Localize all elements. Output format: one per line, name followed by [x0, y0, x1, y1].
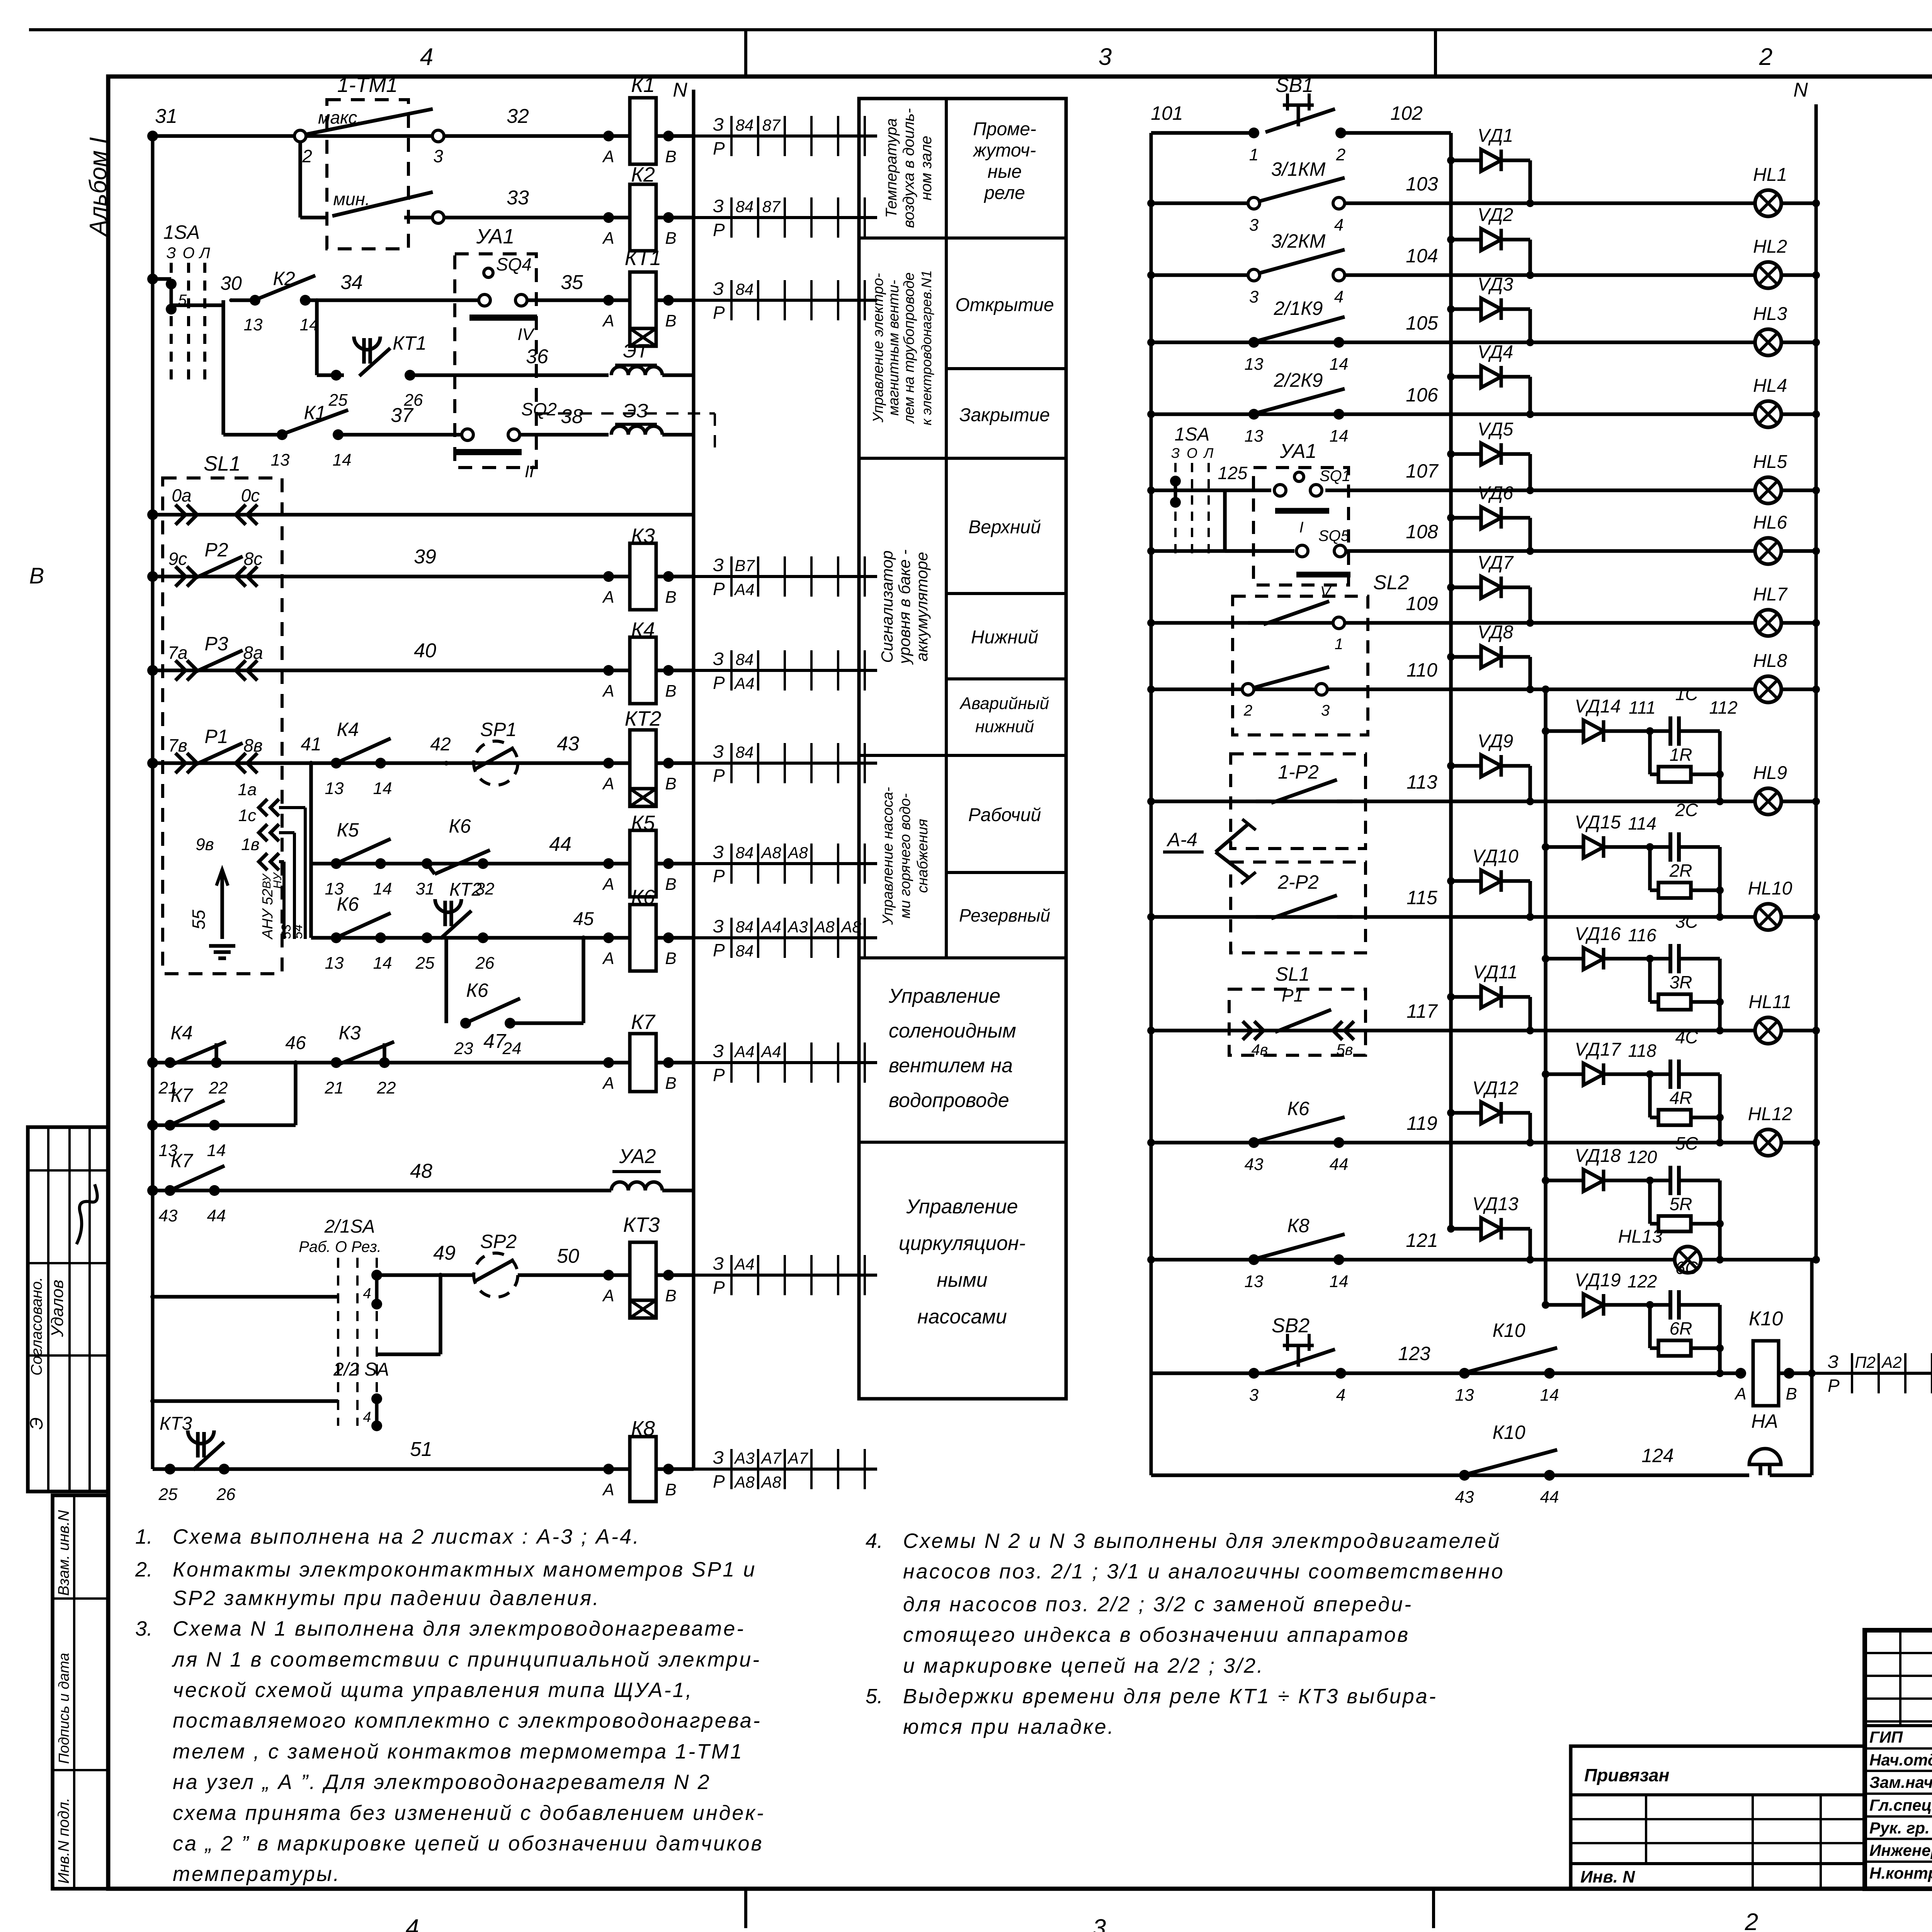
svg-text:118: 118	[1628, 1041, 1656, 1061]
svg-text:Нижний: Нижний	[971, 627, 1038, 648]
svg-text:SP2: SP2	[480, 1231, 517, 1252]
zone table K5	[694, 862, 877, 865]
svg-text:108: 108	[1406, 521, 1438, 543]
svg-text:са „ 2 ” в маркировке цепей: са „ 2 ” в маркировке цепей и обозначени…	[173, 1832, 764, 1855]
svg-text:112: 112	[1709, 697, 1737, 718]
svg-text:А: А	[602, 682, 614, 701]
svg-text:46: 46	[285, 1033, 306, 1053]
svg-text:3: 3	[1093, 1915, 1106, 1932]
svg-text:HL2: HL2	[1753, 236, 1787, 257]
svg-text:А4: А4	[760, 918, 781, 936]
svg-text:1С: 1С	[1675, 684, 1699, 704]
svg-text:SL1: SL1	[204, 452, 241, 475]
svg-text:2/1SA: 2/1SA	[324, 1216, 375, 1237]
svg-text:120: 120	[1628, 1147, 1657, 1167]
svg-text:А3: А3	[733, 1449, 754, 1467]
svg-text:HL8: HL8	[1753, 651, 1787, 671]
wire rail to 1SA	[153, 277, 171, 281]
svg-text:84: 84	[736, 116, 754, 134]
diode bus vertical	[1449, 133, 1453, 1229]
svg-text:HL3: HL3	[1753, 304, 1787, 324]
svg-text:ном зале: ном зале	[918, 136, 935, 201]
svg-text:схема принята без изменений: схема принята без изменений с добавление…	[173, 1801, 765, 1825]
solenoid UA1 box ladder2	[1253, 468, 1349, 585]
svg-text:1-ТМ1: 1-ТМ1	[337, 73, 398, 97]
wire 1SA to node 30	[171, 303, 223, 307]
svg-text:Зам.нач.: Зам.нач.	[1869, 1773, 1932, 1791]
wire rung 104	[1151, 273, 1755, 277]
svg-text:HL4: HL4	[1753, 376, 1787, 396]
svg-text:84: 84	[736, 197, 754, 216]
svg-text:А8: А8	[760, 1473, 781, 1491]
svg-text:42: 42	[430, 734, 451, 755]
svg-text:В: В	[665, 1480, 676, 1499]
svg-text:температуры.: температуры.	[173, 1862, 341, 1886]
solenoid valve UA1 box	[455, 254, 536, 468]
zone tick bottom 3|2	[1432, 1889, 1435, 1928]
svg-text:HL7: HL7	[1753, 584, 1788, 605]
memory net drop 6С	[1718, 1305, 1722, 1373]
svg-text:Подпись и дата: Подпись и дата	[56, 1653, 72, 1764]
ladder 1 left rail	[151, 136, 155, 1469]
svg-text:4: 4	[1334, 216, 1344, 235]
svg-text:119: 119	[1406, 1112, 1437, 1134]
svg-text:2-Р2: 2-Р2	[1277, 871, 1319, 893]
svg-text:HL9: HL9	[1753, 763, 1787, 783]
svg-text:снабжения: снабжения	[915, 819, 931, 893]
svg-text:А4: А4	[733, 674, 754, 692]
zone tick top 3|2	[1434, 30, 1437, 77]
svg-text:З: З	[713, 742, 724, 762]
svg-text:В: В	[665, 311, 676, 330]
svg-text:3R: 3R	[1670, 972, 1692, 992]
svg-text:32: 32	[507, 105, 529, 128]
svg-text:Схема выполнена на 2 листах: Схема выполнена на 2 листах : А-3 ; А-4.	[173, 1525, 640, 1548]
level sensor SL1 box	[163, 478, 282, 974]
svg-text:А7: А7	[787, 1449, 808, 1467]
contact K7 13-14 branch	[153, 1123, 296, 1127]
svg-text:22: 22	[209, 1078, 228, 1097]
svg-text:VД19: VД19	[1575, 1270, 1621, 1291]
svg-text:А: А	[602, 1074, 614, 1093]
svg-text:43: 43	[557, 733, 579, 755]
svg-text:З: З	[713, 114, 724, 134]
svg-text:Закрытие: Закрытие	[959, 405, 1050, 425]
svg-text:1.: 1.	[135, 1525, 153, 1548]
svg-text:31: 31	[155, 105, 177, 128]
wire branch to min contact	[298, 142, 302, 218]
svg-text:З: З	[713, 279, 724, 299]
contact 1-P2	[1271, 780, 1337, 803]
svg-text:2: 2	[1243, 702, 1252, 719]
svg-text:23: 23	[454, 1039, 473, 1058]
stamp signature squiggle	[77, 1184, 97, 1244]
svg-text:Нач.отд.: Нач.отд.	[1869, 1751, 1932, 1769]
svg-text:VД10: VД10	[1472, 846, 1519, 867]
svg-text:3: 3	[1249, 287, 1259, 306]
svg-text:телем , с заменой контакто: телем , с заменой контактов термометра 1…	[173, 1740, 743, 1763]
svg-text:К6: К6	[466, 980, 488, 1001]
svg-text:5R: 5R	[1670, 1194, 1692, 1214]
svg-text:Р3: Р3	[204, 633, 228, 655]
svg-text:К6: К6	[1287, 1098, 1309, 1119]
svg-text:КТ1: КТ1	[393, 332, 427, 354]
svg-text:SL2: SL2	[1373, 571, 1409, 594]
svg-text:2: 2	[1745, 1909, 1758, 1932]
wire rung 32	[153, 134, 609, 138]
svg-text:35: 35	[561, 271, 583, 294]
svg-text:А4: А4	[760, 1043, 781, 1061]
wire node 49	[377, 1273, 440, 1277]
contact SL2 rung 110	[1242, 684, 1254, 695]
svg-text:31: 31	[416, 879, 435, 898]
sheet top edge	[29, 28, 1932, 31]
svg-text:1а: 1а	[238, 780, 257, 799]
svg-text:122: 122	[1628, 1271, 1657, 1291]
zone table K4	[694, 669, 877, 672]
svg-text:К6: К6	[337, 893, 359, 915]
svg-text:ются при наладке.: ются при наладке.	[903, 1715, 1115, 1738]
svg-text:SB2: SB2	[1272, 1315, 1310, 1337]
svg-text:13: 13	[325, 779, 344, 798]
svg-text:VД17: VД17	[1575, 1039, 1622, 1060]
svg-text:Контакты электроконтактных м: Контакты электроконтактных манометров SP…	[173, 1558, 756, 1581]
svg-text:VД18: VД18	[1575, 1146, 1621, 1166]
zone table K6	[694, 936, 877, 939]
stamp table sign-off	[28, 1127, 108, 1492]
svg-text:ческой схемой щита управлен: ческой схемой щита управления типа ЩУА-1…	[173, 1679, 693, 1702]
level wires ANU VU NU	[304, 808, 307, 939]
svg-text:13: 13	[1455, 1386, 1474, 1405]
zone table K10	[1812, 1372, 1932, 1375]
svg-text:HL11: HL11	[1748, 992, 1791, 1012]
zone tick top 4|3	[744, 30, 747, 77]
svg-text:SP2 замкнуты при падении д: SP2 замкнуты при падении давления.	[173, 1587, 600, 1610]
svg-text:К3: К3	[338, 1022, 361, 1044]
svg-text:соленоидным: соленоидным	[889, 1020, 1016, 1042]
svg-text:87: 87	[762, 197, 781, 216]
svg-text:Н.контр.: Н.контр.	[1869, 1864, 1932, 1882]
svg-text:33: 33	[507, 187, 529, 209]
svg-text:В: В	[665, 588, 676, 607]
zone table K2	[694, 216, 877, 219]
svg-text:14: 14	[373, 879, 392, 898]
rung 47 wire	[153, 1061, 609, 1065]
svg-text:Р: Р	[713, 579, 725, 599]
svg-text:13: 13	[1245, 1272, 1264, 1291]
svg-text:2/2 SA: 2/2 SA	[333, 1359, 389, 1380]
svg-text:47: 47	[483, 1030, 507, 1053]
rung 123 wire	[1151, 1371, 1741, 1375]
svg-text:В: В	[665, 229, 676, 248]
svg-text:87: 87	[762, 116, 781, 134]
svg-text:4: 4	[420, 44, 433, 70]
svg-text:1R: 1R	[1670, 745, 1692, 765]
svg-text:26: 26	[475, 954, 495, 973]
svg-text:VД7: VД7	[1478, 553, 1514, 573]
svg-text:Раб. О Рез.: Раб. О Рез.	[299, 1238, 381, 1255]
svg-text:84: 84	[736, 942, 754, 960]
svg-text:N: N	[1793, 79, 1808, 101]
contact K6 23-24 branch	[444, 938, 448, 1023]
svg-text:В7: В7	[735, 556, 755, 575]
memory net drop 4С	[1718, 1074, 1722, 1143]
svg-text:VД15: VД15	[1575, 812, 1621, 833]
svg-text:3/1КМ: 3/1КМ	[1271, 158, 1326, 180]
rung 0a-0c wire	[153, 513, 694, 517]
svg-text:КТ3: КТ3	[623, 1213, 660, 1236]
title block frame	[1865, 1630, 1932, 1889]
svg-text:30: 30	[220, 272, 242, 294]
svg-text:А: А	[1734, 1384, 1746, 1403]
function table frame	[859, 99, 1066, 1399]
svg-text:К7: К7	[170, 1150, 193, 1172]
svg-text:14: 14	[1330, 1272, 1349, 1291]
svg-text:НУ: НУ	[271, 872, 284, 889]
svg-text:З: З	[713, 1447, 724, 1468]
svg-text:SQ2: SQ2	[521, 399, 557, 419]
svg-text:З: З	[713, 649, 724, 669]
svg-text:102: 102	[1390, 102, 1423, 124]
svg-text:13: 13	[1245, 427, 1264, 446]
svg-text:2С: 2С	[1675, 800, 1699, 820]
svg-text:VД2: VД2	[1478, 205, 1514, 225]
svg-text:В: В	[665, 147, 676, 166]
wire rung 106	[1151, 412, 1755, 416]
svg-text:3: 3	[1249, 216, 1259, 235]
svg-text:VД11: VД11	[1473, 962, 1518, 983]
svg-text:VД16: VД16	[1575, 924, 1621, 944]
svg-text:Управление: Управление	[906, 1196, 1018, 1218]
svg-text:3/2КМ: 3/2КМ	[1271, 230, 1326, 252]
svg-text:0а: 0а	[172, 485, 191, 505]
svg-text:А: А	[602, 229, 614, 248]
svg-text:2/2К9: 2/2К9	[1274, 369, 1323, 391]
svg-text:7в: 7в	[168, 735, 187, 755]
svg-text:магнитным венти-: магнитным венти-	[886, 280, 902, 416]
svg-text:6С: 6С	[1675, 1258, 1699, 1278]
svg-text:А3: А3	[787, 918, 808, 936]
svg-text:9с: 9с	[168, 549, 187, 569]
svg-text:Верхний: Верхний	[968, 517, 1041, 537]
svg-text:Аварийный: Аварийный	[959, 694, 1049, 713]
svg-text:41: 41	[301, 734, 321, 755]
svg-text:циркуляцион-: циркуляцион-	[899, 1232, 1026, 1255]
svg-text:В: В	[665, 774, 676, 793]
svg-text:VД8: VД8	[1478, 622, 1514, 643]
svg-text:44: 44	[207, 1206, 226, 1225]
svg-text:К4: К4	[170, 1022, 192, 1044]
svg-text:1SA: 1SA	[163, 221, 200, 243]
svg-text:Альбом I: Альбом I	[85, 137, 112, 237]
svg-text:14: 14	[373, 779, 392, 798]
svg-text:SL1: SL1	[1276, 963, 1310, 985]
svg-text:ЭТ: ЭТ	[623, 340, 650, 362]
svg-text:106: 106	[1406, 384, 1438, 406]
contact TM1 max	[294, 130, 306, 142]
rung 45 wire	[309, 864, 313, 938]
svg-text:SP1: SP1	[480, 719, 517, 740]
svg-text:А8: А8	[813, 918, 835, 936]
svg-text:21: 21	[325, 1078, 344, 1097]
svg-text:Управление электро-: Управление электро-	[870, 273, 886, 423]
svg-text:25: 25	[328, 391, 348, 410]
svg-text:вентилем на: вентилем на	[889, 1054, 1013, 1077]
svg-text:8в: 8в	[243, 735, 263, 755]
svg-text:А4: А4	[733, 1255, 754, 1273]
svg-text:V: V	[1320, 583, 1332, 600]
rung 51 wire	[153, 1467, 609, 1471]
svg-text:Р: Р	[713, 765, 725, 786]
svg-text:А: А	[602, 311, 614, 330]
wire rung 109	[1151, 621, 1755, 625]
svg-text:3: 3	[1321, 702, 1330, 719]
svg-text:VД13: VД13	[1472, 1194, 1519, 1214]
svg-text:HL12: HL12	[1748, 1104, 1793, 1124]
svg-text:4.: 4.	[866, 1529, 883, 1553]
svg-text:Удалов: Удалов	[48, 1280, 67, 1337]
svg-text:УА2: УА2	[619, 1145, 656, 1168]
wire 49 to 2/2SA	[439, 1275, 442, 1354]
svg-text:2R: 2R	[1669, 861, 1692, 881]
svg-text:Р: Р	[713, 138, 725, 158]
svg-text:VД4: VД4	[1478, 342, 1514, 362]
svg-text:HL6: HL6	[1753, 512, 1787, 533]
svg-text:В: В	[665, 1286, 676, 1305]
svg-text:КТ1: КТ1	[625, 247, 662, 270]
svg-text:К10: К10	[1492, 1320, 1525, 1341]
svg-text:Р: Р	[713, 1471, 725, 1492]
zone table KT1	[694, 299, 877, 302]
svg-text:55: 55	[189, 910, 209, 930]
svg-text:1с: 1с	[238, 806, 256, 825]
rung 39 wire	[153, 575, 609, 578]
svg-text:43: 43	[159, 1206, 178, 1225]
svg-text:О: О	[1187, 445, 1197, 461]
stamp table inventory	[53, 1495, 108, 1889]
svg-text:А2: А2	[1881, 1353, 1901, 1371]
ladder 2 left rail	[1150, 133, 1153, 1475]
svg-text:7а: 7а	[168, 643, 187, 663]
rung 48 wire	[153, 1189, 611, 1192]
svg-text:Р: Р	[713, 220, 725, 240]
svg-text:37: 37	[391, 404, 414, 427]
memory net drop 5С	[1718, 1180, 1722, 1260]
svg-text:В: В	[665, 682, 676, 701]
svg-text:стоящего индекса в обозна: стоящего индекса в обозначении аппаратов	[903, 1623, 1410, 1646]
svg-text:А4: А4	[733, 1043, 754, 1061]
svg-text:48: 48	[410, 1160, 432, 1182]
contact 2-P2	[1271, 895, 1337, 918]
svg-text:4: 4	[406, 1915, 419, 1932]
svg-text:насосов поз. 2/1 ; 3/1 и ан: насосов поз. 2/1 ; 3/1 и аналогичны соот…	[903, 1560, 1505, 1583]
svg-text:HL13: HL13	[1618, 1226, 1663, 1247]
svg-text:4R: 4R	[1670, 1088, 1692, 1108]
svg-text:К5: К5	[337, 819, 359, 841]
relay 2-P2 box	[1231, 862, 1366, 953]
svg-text:HL1: HL1	[1753, 165, 1787, 185]
svg-text:2.: 2.	[135, 1558, 153, 1581]
contact TM1 min	[300, 216, 327, 219]
svg-text:125: 125	[1218, 463, 1248, 483]
svg-text:З: З	[713, 196, 724, 216]
svg-text:Л: Л	[198, 245, 210, 262]
svg-text:ГИП: ГИП	[1869, 1728, 1903, 1746]
zone table K3	[694, 575, 877, 578]
svg-text:5.: 5.	[866, 1685, 883, 1708]
svg-text:А: А	[602, 147, 614, 166]
svg-text:38: 38	[561, 405, 583, 428]
svg-text:К1: К1	[631, 73, 655, 97]
svg-text:3: 3	[433, 146, 443, 166]
svg-text:115: 115	[1406, 887, 1437, 908]
memory net drop 3С	[1718, 959, 1722, 1031]
svg-text:VД6: VД6	[1478, 483, 1514, 503]
svg-text:13: 13	[244, 315, 263, 334]
svg-text:УА1: УА1	[1279, 440, 1316, 463]
svg-text:51: 51	[410, 1438, 432, 1461]
svg-text:А4: А4	[733, 580, 754, 599]
level sensor SL2 box	[1233, 596, 1368, 735]
rung 40 wire	[153, 668, 609, 672]
svg-text:А: А	[602, 1480, 614, 1499]
contact P1 4v-5v	[1243, 1021, 1252, 1040]
svg-text:8а: 8а	[243, 643, 263, 663]
svg-text:В: В	[1786, 1384, 1797, 1403]
svg-text:З: З	[713, 1253, 724, 1274]
svg-text:Л: Л	[1203, 445, 1214, 461]
svg-text:43: 43	[1245, 1155, 1264, 1174]
svg-text:К7: К7	[170, 1085, 193, 1106]
svg-text:В: В	[29, 563, 44, 588]
svg-text:13: 13	[1245, 355, 1264, 374]
svg-text:П2: П2	[1855, 1353, 1876, 1371]
svg-text:на узел „ А ”. Для электро: на узел „ А ”. Для электроводонагревател…	[173, 1770, 711, 1794]
wire rung 121	[1151, 1258, 1675, 1262]
svg-text:26: 26	[216, 1485, 236, 1504]
svg-text:ми горячего водо-: ми горячего водо-	[897, 793, 913, 918]
svg-text:мин.: мин.	[333, 189, 370, 209]
svg-text:4С: 4С	[1675, 1027, 1699, 1047]
svg-text:3: 3	[1249, 1386, 1259, 1405]
memory bus vertical	[1544, 689, 1548, 1305]
svg-text:VД3: VД3	[1478, 274, 1514, 295]
svg-text:К7: К7	[631, 1010, 656, 1034]
svg-text:Рабочий: Рабочий	[968, 805, 1041, 825]
svg-text:А: А	[602, 875, 614, 894]
svg-text:14: 14	[1330, 427, 1349, 446]
svg-text:НА: НА	[1751, 1410, 1778, 1432]
svg-text:Гл.спец.: Гл.спец.	[1869, 1796, 1932, 1814]
svg-text:121: 121	[1406, 1230, 1438, 1251]
svg-text:4: 4	[363, 1286, 371, 1302]
svg-text:к электровдонагрев.N1: к электровдонагрев.N1	[918, 270, 934, 425]
svg-text:К6: К6	[449, 815, 471, 837]
svg-text:1в: 1в	[241, 835, 259, 854]
svg-text:К10: К10	[1492, 1422, 1525, 1443]
svg-text:109: 109	[1406, 593, 1438, 614]
svg-text:36: 36	[526, 345, 548, 368]
level sensor SL1 box ladder2	[1229, 989, 1366, 1055]
wire rung 119	[1151, 1141, 1755, 1145]
svg-text:13: 13	[325, 954, 344, 973]
svg-text:SB1: SB1	[1276, 74, 1313, 97]
svg-text:Р: Р	[713, 1065, 725, 1085]
svg-text:Управление насоса-: Управление насоса-	[880, 787, 896, 925]
svg-text:К4: К4	[337, 719, 359, 740]
svg-text:VД9: VД9	[1478, 731, 1514, 752]
svg-text:104: 104	[1406, 245, 1438, 267]
